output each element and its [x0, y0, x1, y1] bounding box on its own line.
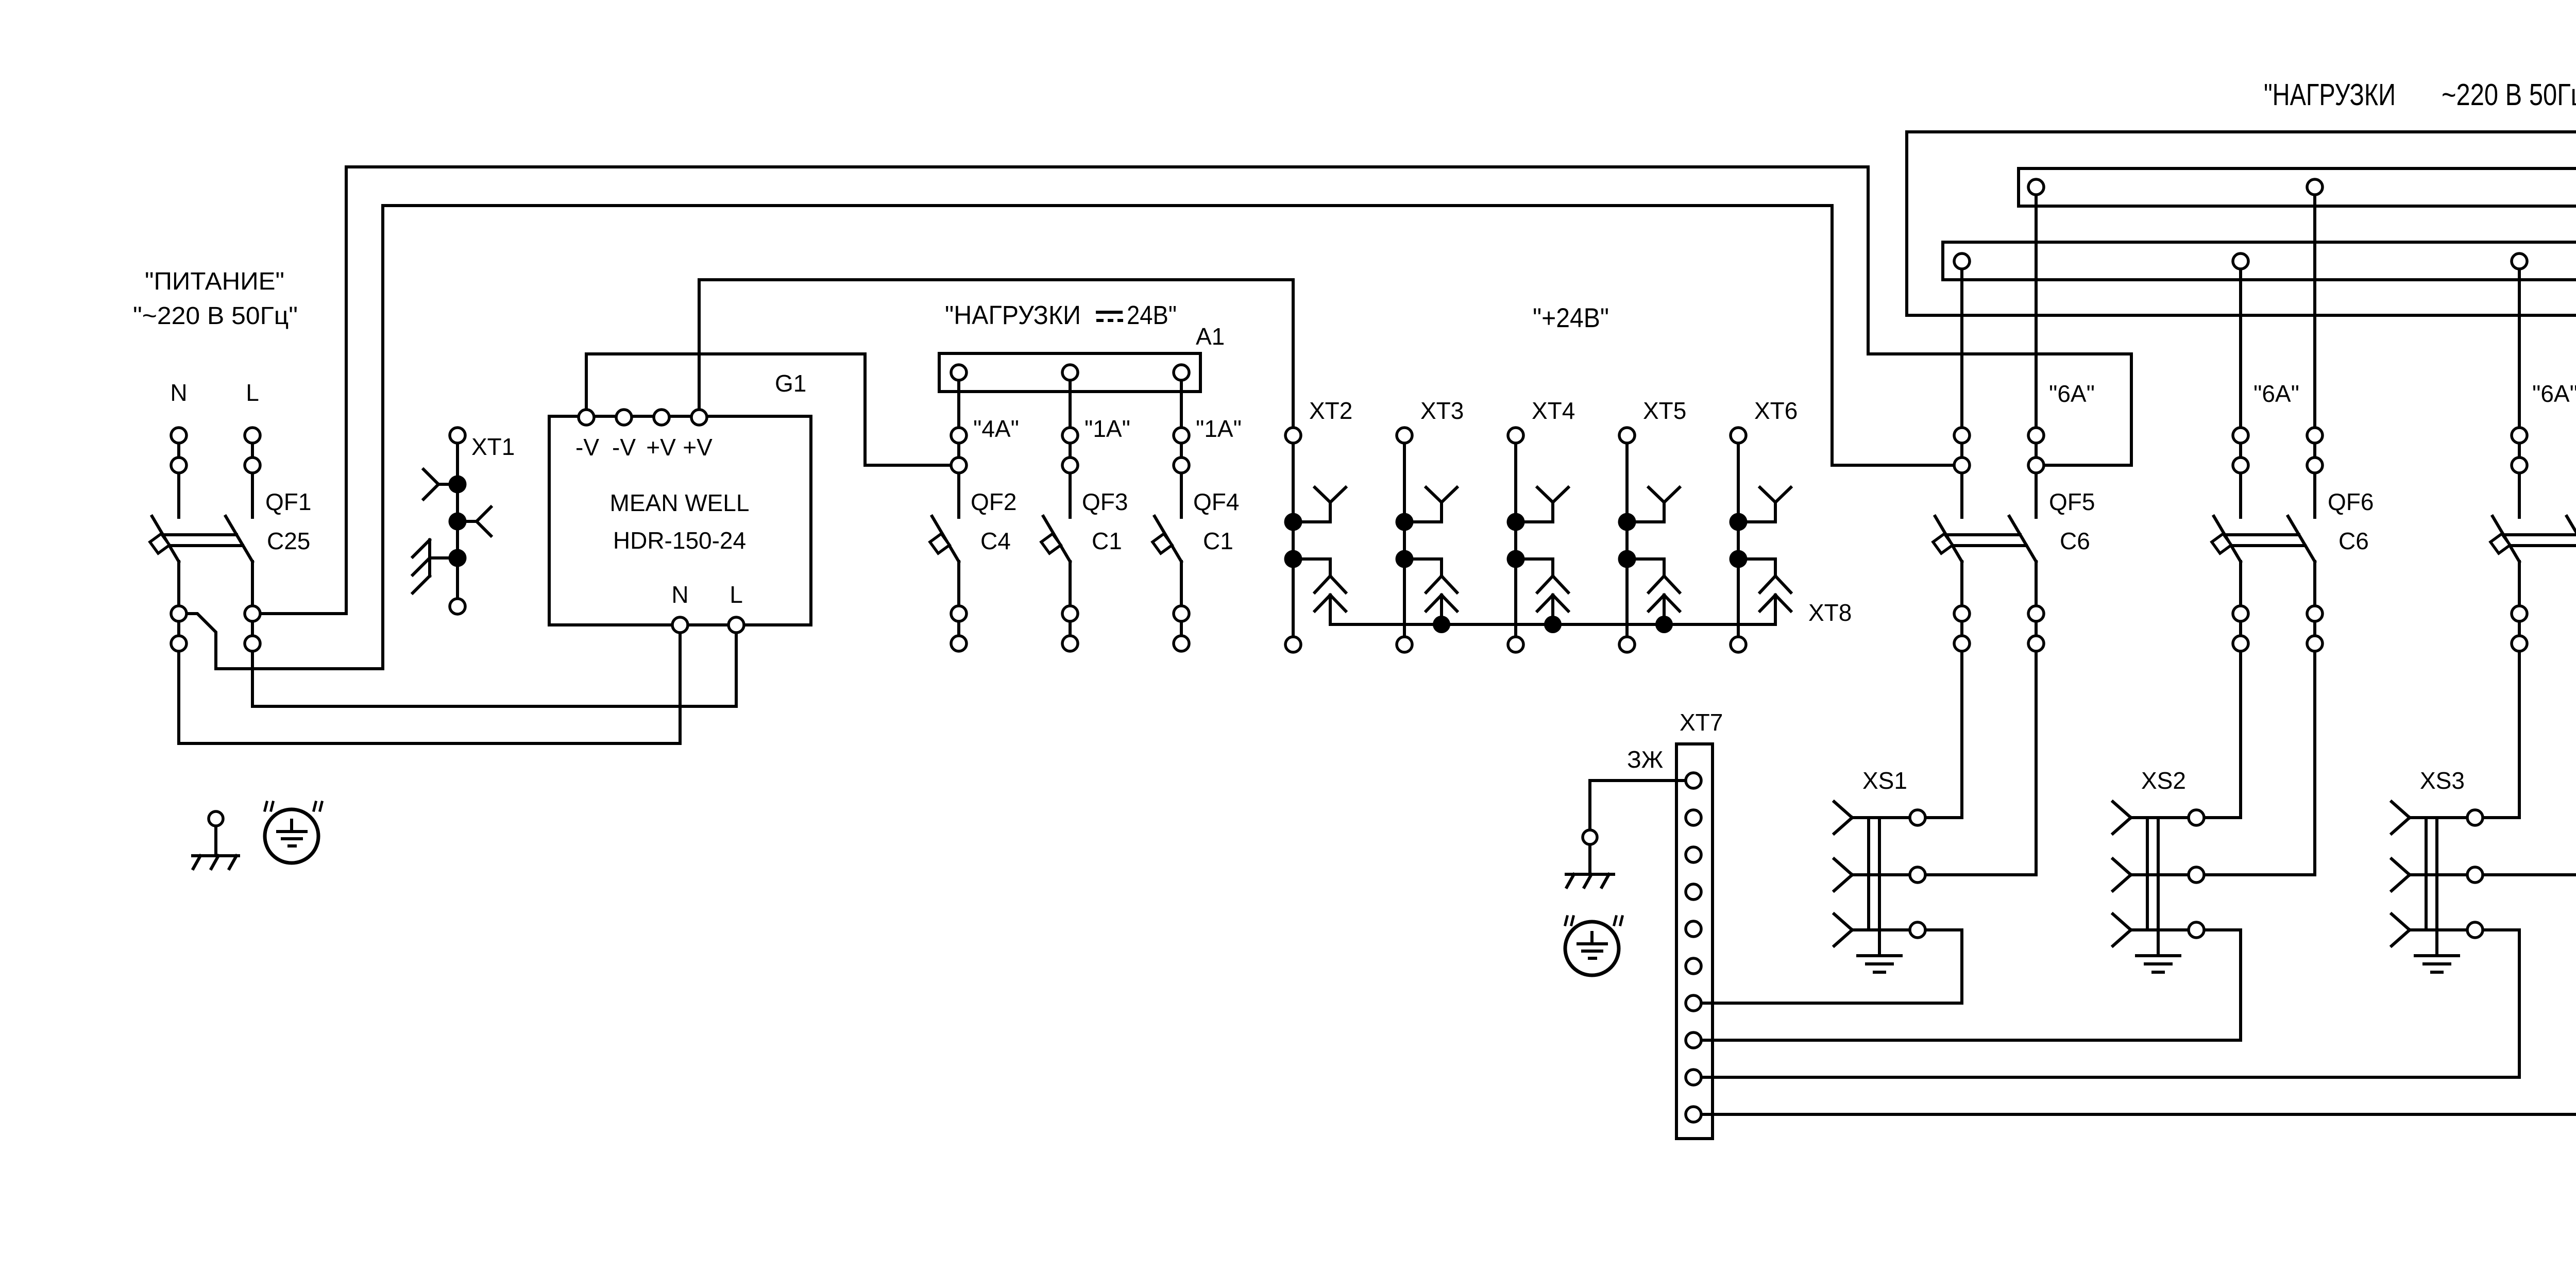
svg-text:"НАГРУЗКИ: "НАГРУЗКИ: [945, 300, 1081, 330]
svg-text:"ПИТАНИЕ": "ПИТАНИЕ": [145, 268, 284, 295]
svg-text:N: N: [671, 581, 688, 608]
svg-text:C6: C6: [2338, 528, 2369, 554]
earth symbol in circle near XT7: [1565, 917, 1622, 975]
svg-text:A1: A1: [1196, 323, 1225, 350]
socket XS2 contact forks, body lines and earth symbol: [2113, 802, 2196, 972]
power supply G1 box: [549, 416, 811, 625]
svg-text:-V: -V: [612, 434, 636, 461]
svg-text:C6: C6: [2060, 528, 2090, 554]
wire rail A: QF1 L-pole output to QF5 right pole: [252, 167, 2131, 614]
svg-text:~220 В 50Гц": ~220 В 50Гц": [2442, 78, 2576, 112]
svg-text:C1: C1: [1092, 528, 1122, 554]
wire G1 -V to QF2 input: [586, 354, 959, 465]
earth symbol in circle (grounding point mark): [265, 802, 322, 863]
circuit breaker QF1 terminals and connector circles: [171, 428, 260, 651]
svg-text:G1: G1: [775, 370, 806, 397]
wire XS2 PE contact to XT7: [1693, 930, 2241, 1040]
wire ЗЖ: XT7 pin 1 to earth terminal: [1590, 781, 1693, 837]
wire rail B: QF1 N-pole output to QF5 left pole: [179, 206, 1962, 669]
junction on XT8 bus at XT5: [1655, 616, 1673, 633]
wire XS2 contact 1 to QF left pole output: [2196, 651, 2241, 818]
svg-text:MEAN WELL: MEAN WELL: [610, 489, 750, 516]
circuit breaker QF4 (1-pole C1) column line, blade, flag: [1153, 372, 1181, 636]
wire XS1 contact 2 to QF right pole output: [1918, 651, 2036, 875]
wire A2 lower bar to QF7 left pole: [2518, 261, 2521, 517]
svg-text:"1A": "1A": [1084, 415, 1130, 442]
terminal block XT4 terminals and junction dots: [1507, 428, 1525, 652]
wire A2 lower bar to QF5 left pole: [1960, 261, 1963, 517]
wire XT8 bus: [1330, 623, 1775, 626]
svg-text:L: L: [730, 581, 743, 608]
wire XS3 PE contact to XT7: [1693, 930, 2519, 1077]
svg-text:XT8: XT8: [1808, 599, 1852, 626]
svg-text:+V: +V: [683, 434, 713, 461]
svg-text:C1: C1: [1203, 528, 1233, 554]
power supply G1 terminals -V -V +V +V N L: [579, 410, 744, 633]
terminal block XT2 column line and connector contact symbols: [1293, 280, 1346, 645]
svg-text:"~220 В 50Гц": "~220 В 50Гц": [133, 302, 298, 330]
terminal strip A1 terminals: [951, 365, 1189, 380]
svg-text:QF5: QF5: [2049, 488, 2095, 515]
DC symbol: [1097, 311, 1121, 314]
wire G1 +V to XT2 (+24V distribution): [699, 280, 1293, 417]
ground terminal circle near XT7: [1583, 830, 1597, 844]
svg-text:XT6: XT6: [1754, 397, 1798, 424]
svg-text:QF4: QF4: [1193, 488, 1239, 515]
terminal block XT1 line and contact symbols: [413, 435, 491, 606]
svg-text:XS2: XS2: [2141, 767, 2186, 794]
wire XS3 contact 2 to QF right pole output: [2475, 651, 2576, 875]
svg-text:"6A": "6A": [2253, 380, 2299, 407]
wire A2 upper bar to QF5 right pole: [2035, 187, 2038, 517]
svg-text:XT7: XT7: [1680, 709, 1723, 736]
terminal strip A2 lower bar terminals: [1954, 253, 2576, 269]
circuit breaker QF3 connector circles and output terminals: [1062, 428, 1078, 651]
svg-text:"+24В": "+24В": [1533, 303, 1609, 333]
terminal block XT5 column line and connector contact symbols: [1627, 435, 1680, 645]
svg-text:QF3: QF3: [1082, 488, 1128, 515]
terminal block XT6 terminals and junction dots: [1730, 428, 1748, 652]
terminal block XT6 column line and connector contact symbols: [1738, 435, 1791, 645]
block A2 outline: [1907, 132, 2576, 315]
svg-text:XT5: XT5: [1643, 397, 1686, 424]
circuit breaker QF7 connector circles and output terminals: [2512, 428, 2576, 651]
svg-text:HDR-150-24: HDR-150-24: [613, 527, 746, 554]
ground terminal circle: [209, 811, 223, 826]
wire QF1 L-pole lower terminal to G1 L: [252, 625, 736, 706]
svg-text:XS1: XS1: [1862, 767, 1907, 794]
svg-text:XT2: XT2: [1309, 397, 1352, 424]
circuit breaker QF6 (2-pole C6) blades, tie bar, flag: [2212, 516, 2315, 636]
terminal strip A2 upper bar terminals: [2028, 179, 2576, 195]
circuit breaker QF3 (1-pole C1) column line, blade, flag: [1041, 372, 1070, 636]
svg-text:"6A": "6A": [2049, 380, 2095, 407]
svg-text:L: L: [246, 379, 259, 406]
ground terminal near XT7: [1588, 845, 1591, 874]
socket XS3 contact terminals: [2467, 810, 2483, 938]
svg-text:"1A": "1A": [1196, 415, 1242, 442]
terminal block XT3 column line and connector contact symbols: [1404, 435, 1457, 645]
svg-text:+V: +V: [646, 434, 676, 461]
svg-text:QF6: QF6: [2328, 488, 2374, 515]
svg-text:ЗЖ: ЗЖ: [1627, 746, 1663, 773]
svg-text:C4: C4: [980, 528, 1011, 554]
socket XS2 contact terminals: [2189, 810, 2204, 938]
wire XS1 PE contact to XT7: [1693, 930, 1962, 1003]
wire XS2 contact 2 to QF right pole output: [2196, 651, 2315, 875]
svg-text:QF1: QF1: [265, 488, 311, 515]
circuit breaker QF1 (2-pole C25) pole lines, blades, tie bar, flag: [150, 435, 252, 636]
terminal strip A2 lower bar box: [1943, 242, 2576, 280]
wire QF1 N-pole lower terminal to G1 N: [179, 625, 680, 743]
svg-text:-V: -V: [575, 434, 599, 461]
circuit breaker QF4 connector circles and output terminals: [1174, 428, 1189, 651]
terminal block XT5 terminals and junction dots: [1618, 428, 1636, 652]
terminal strip A1 box: [939, 353, 1200, 392]
svg-text:C25: C25: [267, 528, 310, 554]
svg-text:XS3: XS3: [2420, 767, 2465, 794]
terminal strip XT7 terminals 1-10: [1686, 773, 1701, 1122]
ground terminal (protective earth stud): [214, 826, 217, 856]
circuit breaker QF6 connector circles and output terminals: [2233, 428, 2323, 651]
svg-text:"6A": "6A": [2532, 380, 2576, 407]
junction on XT8 bus at XT4: [1544, 616, 1562, 633]
circuit breaker QF2 connector circles and output terminals: [951, 428, 967, 651]
svg-text:QF2: QF2: [971, 488, 1016, 515]
wire XS3 contact 1 to QF left pole output: [2475, 651, 2519, 818]
circuit breaker QF2 (1-pole C4) column line, blade, flag: [930, 372, 959, 636]
circuit breaker QF5 (2-pole C6) blades, tie bar, flag: [1933, 516, 2036, 636]
svg-text:24В": 24В": [1127, 300, 1177, 330]
svg-text:"4A": "4A": [973, 415, 1019, 442]
wire XS1 contact 1 to QF left pole output: [1918, 651, 1962, 818]
circuit breaker QF5 connector circles and output terminals: [1954, 428, 2044, 651]
socket XS1 contact forks, body lines and earth symbol: [1834, 802, 1918, 972]
socket XS3 contact forks, body lines and earth symbol: [2392, 802, 2475, 972]
junction on XT8 bus at XT3: [1433, 616, 1450, 633]
svg-text:XT3: XT3: [1420, 397, 1464, 424]
svg-text:XT1: XT1: [471, 433, 515, 460]
terminal block XT4 column line and connector contact symbols: [1516, 435, 1568, 645]
terminal block XT1 terminals and junction dots: [449, 428, 467, 614]
terminal strip A2 upper bar box: [2019, 168, 2576, 206]
wire A2 lower bar to QF6 left pole: [2239, 261, 2242, 517]
terminal block XT3 terminals and junction dots: [1396, 428, 1414, 652]
circuit breaker QF7 (2-pole C6) blades, tie bar, flag: [2490, 516, 2576, 636]
svg-text:XT4: XT4: [1532, 397, 1575, 424]
wire XS4 PE contact to XT7: [1693, 911, 2576, 1114]
wire A2 upper bar to QF6 right pole: [2313, 187, 2316, 517]
terminal block XT2 terminals and junction dots: [1284, 428, 1302, 652]
svg-text:N: N: [170, 379, 187, 406]
socket XS1 contact terminals: [1910, 810, 1925, 938]
svg-text:"НАГРУЗКИ: "НАГРУЗКИ: [2264, 78, 2396, 112]
terminal strip XT7 box: [1676, 744, 1713, 1139]
